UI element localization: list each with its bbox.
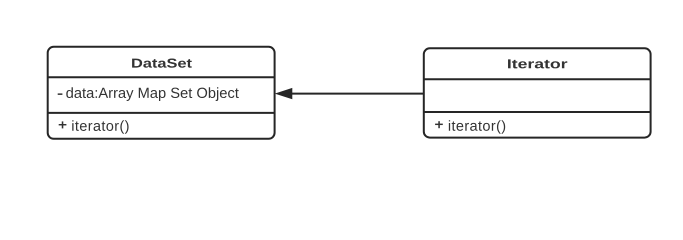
DataSet title text: DataSet [132, 59, 192, 68]
DataSet title divider [48, 76, 275, 78]
association arrow from Iterator to DataSet [276, 89, 423, 99]
Iterator attribute divider [424, 111, 651, 113]
class box Iterator [424, 48, 651, 137]
DataSet attribute divider [48, 112, 275, 114]
DataSet method text: + iterator() [59, 120, 129, 134]
DataSet attribute text: - data:Array Map Set Object [58, 87, 239, 101]
Iterator method text: + iterator() [435, 120, 505, 134]
Iterator title text: Iterator [508, 59, 567, 68]
class box DataSet [48, 47, 275, 139]
Iterator title divider [424, 78, 651, 80]
